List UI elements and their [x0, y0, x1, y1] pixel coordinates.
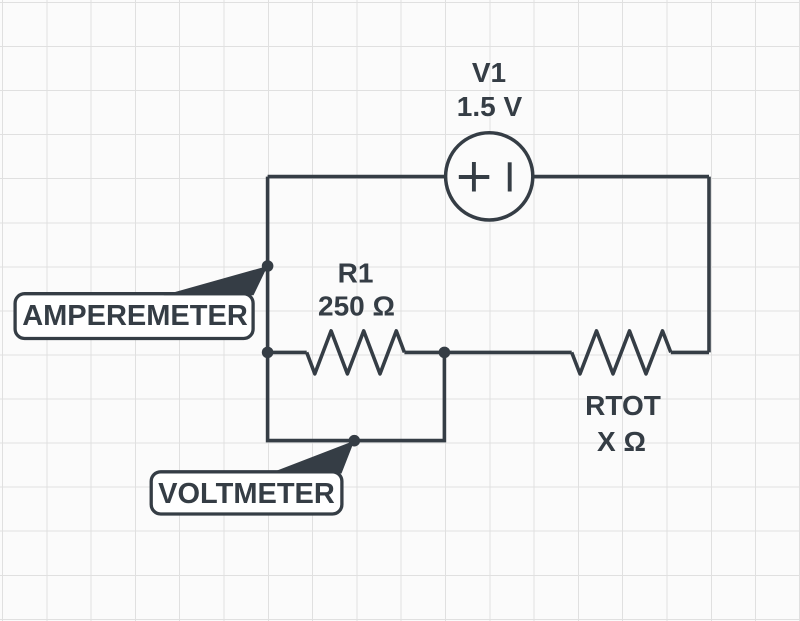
wire RTOT right lead: [671, 351, 709, 355]
node C junction dot: [439, 347, 451, 359]
resistor R1: [307, 331, 405, 374]
wire R1 right lead to node C: [404, 351, 444, 355]
svg-text:AMPEREMETER: AMPEREMETER: [22, 300, 248, 332]
svg-text:X Ω: X Ω: [597, 426, 646, 457]
node B junction dot: [262, 347, 274, 359]
wire left vertical with bottom loop: [268, 177, 445, 441]
svg-text:1.5 V: 1.5 V: [457, 91, 523, 122]
svg-text:250 Ω: 250 Ω: [318, 291, 395, 322]
node A junction dot (amperemeter tap): [262, 260, 274, 272]
wire top: left corner to V1 to right corner: [268, 175, 709, 179]
callout AMPEREMETER: [15, 266, 268, 339]
voltage source V1: [446, 133, 533, 220]
node D junction dot (voltmeter tap): [349, 435, 361, 447]
svg-text:RTOT: RTOT: [585, 390, 661, 421]
callout VOLTMETER: [151, 441, 354, 514]
wire node C to RTOT: [444, 351, 571, 355]
resistor RTOT: [572, 331, 671, 374]
svg-text:V1: V1: [472, 57, 506, 88]
wire R1 left lead: [268, 351, 307, 355]
wire right vertical: [707, 177, 711, 353]
svg-text:VOLTMETER: VOLTMETER: [158, 478, 335, 510]
svg-text:R1: R1: [338, 257, 374, 288]
